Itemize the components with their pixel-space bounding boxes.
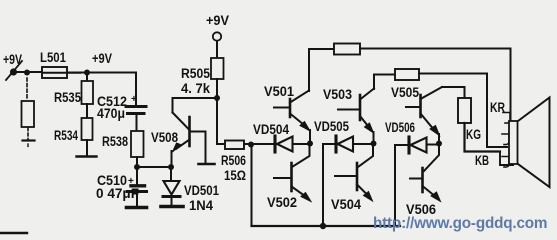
node C <box>134 164 140 170</box>
resistor (dashed branch unlabeled) <box>22 101 35 127</box>
resistor R534 <box>82 118 93 140</box>
diode VD506 with corner to rail <box>395 137 439 157</box>
diode VD504 <box>251 136 310 152</box>
wire KG feed down <box>465 123 501 152</box>
wire stage2 to contacts <box>419 74 507 148</box>
node A <box>24 70 30 76</box>
svg-text:KG: KG <box>466 127 481 142</box>
svg-text:0 47μF: 0 47μF <box>96 186 139 201</box>
ground below VD501 <box>161 205 183 209</box>
wire KB step <box>500 152 513 166</box>
svg-text:+: + <box>128 176 134 187</box>
svg-text:VD506: VD506 <box>385 120 415 135</box>
wire V501 collector riser + RB1 <box>309 49 334 91</box>
transistor V503 <box>338 89 374 144</box>
transistor V501 <box>274 91 310 144</box>
transistor V506 <box>410 143 441 202</box>
wire R505 node down to R506 <box>217 98 224 144</box>
resistor RB1 <box>334 44 360 55</box>
node E <box>214 95 220 101</box>
wire V503 collector riser + RB2 <box>374 75 395 90</box>
ground below C510 <box>127 206 147 210</box>
wire rail corner down to C512 <box>135 73 137 106</box>
connector +9V input <box>6 61 42 80</box>
inductor L501 <box>42 67 80 78</box>
capacitor C512 <box>126 107 146 114</box>
svg-text:1N4: 1N4 <box>189 198 214 213</box>
wire VD505 cathode down to rail <box>322 144 324 226</box>
wire <box>86 140 88 156</box>
wire <box>216 79 218 98</box>
svg-text:KB: KB <box>475 153 489 168</box>
diode VD501 <box>163 167 180 205</box>
transistor V505 <box>406 87 442 143</box>
speaker <box>509 98 550 188</box>
wire <box>137 157 171 167</box>
resistor R538 <box>131 131 144 157</box>
node J4 <box>436 141 442 147</box>
svg-text:+9V: +9V <box>92 51 112 66</box>
node rail <box>320 223 326 229</box>
svg-text:http://www.go-gddq.com: http://www.go-gddq.com <box>373 215 547 232</box>
wire <box>244 143 251 145</box>
resistor (KG feed) <box>458 98 471 123</box>
resistor RB2 <box>395 69 419 80</box>
wire V508 collector to R505 node <box>173 97 218 99</box>
bottom rail <box>252 225 401 227</box>
svg-text:R538: R538 <box>102 134 128 149</box>
svg-text:V502: V502 <box>267 195 297 210</box>
wire <box>216 41 218 58</box>
resistor R535 <box>82 81 94 104</box>
wire V505 collector to KG resistor <box>442 87 465 98</box>
wire dashed below <box>27 128 29 139</box>
transistor V504 <box>335 143 373 201</box>
node B <box>84 70 90 76</box>
svg-text:+9V: +9V <box>3 52 22 67</box>
svg-text:R535: R535 <box>54 90 81 105</box>
transistor V508 <box>172 98 206 167</box>
scan artifact bottom-left <box>0 232 27 234</box>
resistor R505 <box>211 58 224 79</box>
wire top rail <box>67 72 136 74</box>
svg-text:VD505: VD505 <box>314 119 349 134</box>
resistor R506 <box>225 141 244 150</box>
svg-text:R505: R505 <box>181 66 210 81</box>
node J1 <box>248 142 254 148</box>
svg-text:+: + <box>131 94 137 105</box>
node J3 <box>371 141 377 147</box>
transistor V502 <box>274 143 311 202</box>
svg-text:KR: KR <box>490 100 505 115</box>
ground below R534 <box>77 155 97 157</box>
wire <box>136 115 138 131</box>
contact KG hook <box>502 134 509 145</box>
contact KR hook <box>503 113 510 124</box>
svg-text:15Ω: 15Ω <box>224 168 246 183</box>
svg-text:VD504: VD504 <box>253 122 289 137</box>
svg-text:V508: V508 <box>151 130 178 145</box>
svg-text:V501: V501 <box>264 84 295 99</box>
svg-text:V503: V503 <box>323 87 352 102</box>
capacitor C510 <box>127 167 147 206</box>
svg-text:+9V: +9V <box>206 13 229 28</box>
node D <box>168 164 174 170</box>
ground (dashed branch) <box>23 139 35 141</box>
svg-text:V505: V505 <box>391 85 419 100</box>
svg-text:V504: V504 <box>331 197 362 212</box>
ground (V508 base) <box>199 163 215 166</box>
contact KB hook <box>502 157 509 168</box>
wire stage1 to speaker <box>360 49 511 122</box>
svg-text:L501: L501 <box>40 50 66 65</box>
svg-text:VD501: VD501 <box>184 183 219 198</box>
wire R535 branch <box>86 72 88 81</box>
wire <box>86 104 88 118</box>
wire VD506 cathode down to rail <box>394 145 396 226</box>
svg-text:R534: R534 <box>54 128 78 143</box>
svg-text:R506: R506 <box>221 153 246 168</box>
node J2 <box>307 141 313 147</box>
terminal +9V (top) <box>213 32 221 40</box>
svg-text:470μ: 470μ <box>97 106 125 121</box>
wire J1 to bottom rail <box>251 144 253 226</box>
svg-text:4. 7k: 4. 7k <box>181 81 211 96</box>
wire dashed branch <box>26 78 28 100</box>
diode VD505 with corner to rail <box>323 136 373 155</box>
